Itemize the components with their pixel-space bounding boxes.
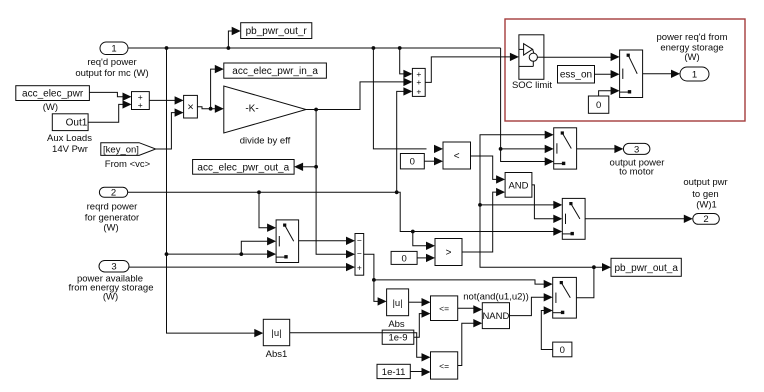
constant 1e-9: [382, 330, 414, 344]
svg-text:acc_elec_pwr_in_a: acc_elec_pwr_in_a: [232, 66, 318, 77]
svg-text:output pwr: output pwr: [683, 177, 727, 188]
wire SOC limit to SW-ESS input1: [544, 53, 620, 61]
product block X: [184, 95, 198, 118]
junction inport2 at S1 riser: [395, 190, 399, 194]
label From &lt;vc&gt;: [105, 159, 151, 170]
wire upper &lt;= to NAND input1: [458, 305, 483, 313]
wire inport3 to S2 input3: [129, 263, 355, 271]
relational operator &gt;: [435, 239, 462, 266]
outport 3 (output power to motor): [623, 143, 650, 155]
junction inport2 at SW1 branch: [257, 190, 261, 194]
wire inport1 to S1 input1: [400, 48, 413, 78]
svg-text:Abs1: Abs1: [266, 349, 288, 360]
svg-text:0: 0: [596, 100, 601, 111]
switch SW-MOTOR: [554, 128, 577, 169]
label for outport 3: [610, 158, 665, 178]
logical operator NAND: [482, 303, 509, 329]
svg-text:(W): (W): [103, 223, 118, 234]
wire S2 output down: [364, 254, 387, 305]
outport 1 (power req'd from energy storage): [680, 67, 709, 81]
wire &lt; output to AND input1: [471, 156, 506, 184]
svg-text:2: 2: [703, 214, 708, 225]
wire inport2 branch to SW1 input1: [259, 192, 276, 232]
wire SW-GEN output to outport 2: [585, 215, 693, 223]
wire constant0 to &gt; input2: [417, 254, 435, 262]
svg-text:pb_pwr_out_a: pb_pwr_out_a: [615, 263, 679, 274]
junction on inport1 line at pb riser: [227, 46, 231, 50]
constant 0 (pb): [553, 342, 572, 357]
wire NAND to SW-PB input2: [510, 293, 553, 316]
sum block (aux add): [132, 92, 150, 110]
outport 2 (output pwr to gen): [693, 214, 720, 225]
from block ess_on: [558, 66, 595, 84]
svg-text:output for mc (W): output for mc (W): [75, 68, 148, 79]
svg-text:-K-: -K-: [245, 104, 258, 115]
label not(and(u1,u2)): [463, 292, 528, 303]
svg-text:not(and(u1,u2)): not(and(u1,u2)): [463, 292, 528, 303]
svg-text:reqrd power: reqrd power: [87, 202, 138, 213]
svg-text:[key_on]: [key_on]: [103, 144, 139, 155]
goto block pb_pwr_out_r: [241, 23, 312, 39]
label SOC limit: [512, 80, 552, 91]
wire gain output: [306, 78, 412, 110]
wire Abs to upper &lt;= input1: [409, 298, 431, 306]
wire riser to acc_elec_pwr_in_a: [211, 65, 224, 109]
constant 0 (for &lt;): [400, 154, 424, 169]
switch SW-GEN: [562, 198, 585, 239]
switch SW-ESS: [620, 50, 643, 98]
wire Out1 to sum: [88, 100, 131, 122]
svg-text:From <vc>: From <vc>: [105, 159, 151, 170]
wire lower &lt;= to NAND input2: [458, 319, 483, 366]
abs block Abs |u|: [387, 289, 409, 316]
wire inport1 bus down-left: [167, 48, 264, 337]
wire key_on to product: [156, 108, 184, 149]
svg-text:−: −: [357, 235, 362, 245]
label for outport 1: [657, 32, 728, 63]
sum block S1 (+++): [412, 68, 425, 96]
label Aux Loads 14V Pwr: [47, 133, 92, 155]
svg-text:1: 1: [111, 44, 116, 55]
svg-text:(W)1: (W)1: [696, 200, 717, 211]
svg-text:>: >: [446, 247, 452, 258]
svg-text:AND: AND: [508, 180, 528, 191]
svg-text:<=: <=: [439, 304, 449, 314]
svg-text:0: 0: [410, 157, 415, 168]
goto block acc_elec_pwr_out_a: [193, 160, 295, 175]
wire inport2 main horizontal: [128, 192, 563, 235]
relational operator &lt;: [443, 142, 471, 169]
svg-text:3: 3: [111, 261, 116, 272]
label (W) under acc_elec_pwr: [43, 102, 58, 113]
wire bus branch to SW1 input3: [167, 250, 277, 258]
svg-text:14V Pwr: 14V Pwr: [52, 144, 88, 155]
junction on inport1 line at bus: [165, 46, 169, 50]
svg-text:<=: <=: [439, 361, 449, 371]
label Abs: [388, 319, 405, 330]
wire SW1 output to S2 input1: [299, 237, 355, 245]
junction pb net: [592, 265, 596, 269]
wire S1 output to SOC limit: [425, 53, 519, 83]
label for inport 2: [85, 202, 139, 234]
svg-text:ess_on: ess_on: [560, 70, 592, 81]
svg-text:pb_pwr_out_r: pb_pwr_out_r: [246, 26, 308, 37]
constant 0 (for &gt;): [391, 251, 417, 264]
wire pb branch to SW-GEN input1: [480, 201, 562, 209]
red highlight box (energy storage section): [505, 19, 745, 121]
wire product to gain: [197, 105, 223, 113]
block Out1 (Aux Loads 14V Pwr): [52, 114, 88, 131]
goto block pb_pwr_out_a: [611, 258, 681, 276]
wire Abs1 output across: [290, 333, 431, 362]
wire drop to &gt; input1: [413, 232, 435, 251]
subsystem SOC limit: [519, 35, 544, 80]
label for outport 2: [683, 177, 727, 211]
wire branch up to SW1 input2: [241, 237, 276, 254]
svg-text:(W): (W): [43, 102, 58, 113]
svg-text:divide by eff: divide by eff: [240, 136, 291, 147]
junction bus to switch branch: [165, 252, 169, 256]
abs block Abs1 |u|: [263, 319, 289, 345]
svg-text:SOC limit: SOC limit: [512, 80, 552, 91]
svg-text:(W): (W): [684, 52, 699, 63]
wire sum to product: [149, 96, 183, 104]
svg-text:|u|: |u|: [392, 298, 402, 309]
switch SW1 (generator select): [276, 220, 299, 263]
inport 2 (reqrd power for generator): [99, 187, 127, 198]
svg-text:+: +: [138, 100, 143, 110]
wire branch to SW-MOTOR input2: [501, 145, 554, 153]
junction product output: [209, 107, 213, 111]
svg-text:acc_elec_pwr: acc_elec_pwr: [22, 89, 84, 100]
junction at acc_elec_pwr_out_a: [314, 165, 318, 169]
svg-text:Aux Loads: Aux Loads: [47, 133, 92, 144]
svg-text:req'd power: req'd power: [87, 57, 136, 68]
wire inport1 right end down: [501, 48, 554, 166]
junction on SW1 branch: [239, 252, 243, 256]
svg-text:0: 0: [560, 345, 565, 356]
wire 1e-11 to lower &lt;= input2: [410, 368, 430, 376]
junction pb riser to SW-GEN: [478, 203, 482, 207]
svg-text:3: 3: [634, 144, 639, 155]
svg-text:NAND: NAND: [482, 311, 509, 322]
svg-text:Out1: Out1: [66, 118, 88, 129]
svg-text:to gen: to gen: [692, 189, 718, 200]
wire inport2 riser to S1 input3: [397, 87, 413, 192]
from tag [key_on]: [101, 143, 156, 156]
junction inport1 to SW-MOTOR input2: [499, 147, 503, 151]
wire constant0 to SW-ESS input3: [599, 87, 620, 96]
switch SW-PB: [553, 277, 577, 318]
wire constant0 to &lt; input2: [424, 157, 443, 165]
svg-text:acc_elec_pwr_out_a: acc_elec_pwr_out_a: [197, 162, 289, 173]
constant 1e-11: [377, 364, 410, 378]
inport 1 (req'd power output for mc): [100, 42, 128, 55]
wire inport1 to &lt; input1: [373, 48, 443, 153]
wire &gt; output to AND input2: [462, 188, 505, 252]
svg-text:2: 2: [111, 187, 116, 198]
relational operator &lt;= (lower): [431, 352, 458, 379]
junction gain output: [314, 108, 318, 112]
wire ess_on to SW-ESS input2: [595, 70, 620, 78]
label for inport 3: [68, 274, 153, 303]
junction S2 output: [372, 278, 376, 282]
svg-text:|u|: |u|: [271, 328, 281, 339]
svg-text:to motor: to motor: [619, 167, 654, 178]
logical operator AND: [505, 173, 532, 198]
wire SW-PB output to pb_pwr_out_a: [576, 263, 611, 298]
junction inport2 line at &gt; riser: [411, 230, 415, 234]
svg-text:1e-11: 1e-11: [382, 367, 406, 378]
wire riser to pb_pwr_out_r: [228, 27, 240, 48]
relational operator &lt;= (upper): [431, 296, 458, 321]
goto block acc_elec_pwr_in_a: [224, 63, 327, 78]
inport 3 (power available from energy storage): [99, 261, 129, 273]
junction on inport1 line at sum riser: [398, 46, 402, 50]
wire S2 branch to SW-PB input1: [374, 280, 553, 288]
svg-text:+: +: [416, 86, 421, 96]
wire gain branch down: [316, 110, 355, 259]
junction on inport1 line at lt riser: [372, 46, 376, 50]
label Abs1: [266, 349, 288, 360]
wire pb net to left riser: [480, 131, 594, 268]
svg-text:<: <: [454, 151, 460, 162]
wire SW-ESS to outport 1: [643, 70, 680, 78]
svg-text:×: ×: [187, 101, 193, 113]
svg-text:Abs: Abs: [388, 319, 405, 330]
wire acc_elec_pwr to sum: [89, 92, 131, 101]
svg-text:1: 1: [692, 70, 697, 81]
svg-text:−: −: [357, 249, 362, 259]
svg-text:+: +: [357, 262, 362, 272]
wire constant0 to SW-PB input3: [541, 306, 552, 349]
wire SW-MOTOR output to outport 3: [577, 145, 624, 153]
wire inport1 main horizontal: [128, 47, 501, 49]
gain block -K- (divide by eff): [224, 86, 306, 133]
constant 0 (ess): [588, 96, 608, 113]
svg-text:1e-9: 1e-9: [388, 333, 407, 344]
wire AND output to SW-GEN input2: [532, 185, 562, 223]
from block acc_elec_pwr: [16, 86, 90, 101]
label divide by eff: [240, 136, 291, 147]
sum block S2 (- - +): [355, 234, 364, 276]
svg-text:power req'd from: power req'd from: [657, 32, 728, 43]
svg-text:(W): (W): [103, 292, 118, 303]
wire into acc_elec_pwr_out_a: [294, 163, 316, 171]
label for inport 1: [75, 57, 148, 79]
svg-text:0: 0: [401, 253, 406, 264]
wire 1e-9 to upper &lt;= input2: [414, 309, 431, 337]
